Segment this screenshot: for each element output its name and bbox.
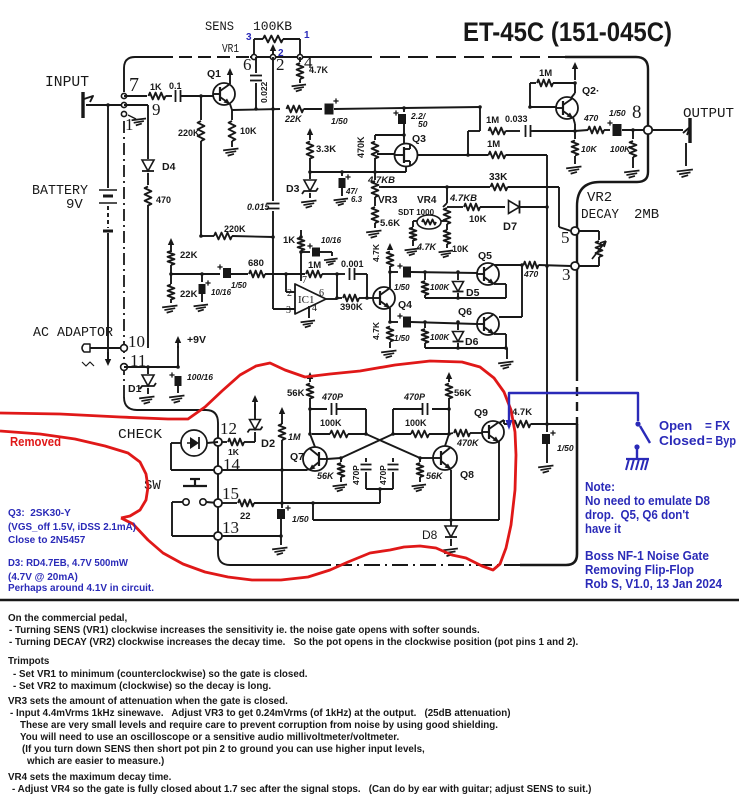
svg-text:100K: 100K <box>405 418 427 428</box>
flipflop ground rail <box>313 519 499 521</box>
sw row wire right <box>282 502 313 504</box>
svg-text:0.033: 0.033 <box>505 114 528 124</box>
svg-text:(4.7V @ 20mA): (4.7V @ 20mA) <box>8 572 78 583</box>
resistor 470 to pad3 <box>524 262 539 269</box>
transistor Q7 <box>303 447 327 471</box>
svg-text:You will need to use an oscill: You will need to use an oscilloscope or … <box>20 732 400 743</box>
bias row wire y=172 <box>310 171 406 173</box>
svg-text:470P: 470P <box>403 392 426 402</box>
IC1 pin2 wire <box>285 274 287 292</box>
capacitor 1/50 Q9 <box>546 424 548 432</box>
svg-text:6: 6 <box>243 55 252 74</box>
svg-text:7: 7 <box>302 275 307 286</box>
+9V arrow Q2 <box>574 66 576 80</box>
resistor 100K cross right <box>411 431 429 438</box>
svg-text:4.7KB: 4.7KB <box>367 175 395 186</box>
svg-text:100K: 100K <box>320 418 342 428</box>
svg-text:AC ADAPTOR: AC ADAPTOR <box>33 325 114 341</box>
transistor Q2 <box>556 97 578 119</box>
svg-text:(VGS_off 1.5V, iDSS 2.1mA): (VGS_off 1.5V, iDSS 2.1mA) <box>8 522 136 533</box>
pad14 wire to Q7 <box>222 469 307 471</box>
svg-text:100K: 100K <box>430 333 450 342</box>
resistor 1M Q2 bias <box>529 83 531 107</box>
svg-text:4.7KB: 4.7KB <box>449 193 477 204</box>
Q8 base node 56K <box>420 457 433 459</box>
svg-text:D8: D8 <box>422 528 438 542</box>
svg-text:13: 13 <box>222 518 239 537</box>
svg-text:VR4: VR4 <box>417 195 437 206</box>
trimpot VR4 4.7KB <box>445 185 449 189</box>
capacitor 1/50 output <box>613 124 622 136</box>
rail under Q5 <box>425 297 506 299</box>
capacitor 470P upper right <box>432 408 449 410</box>
svg-text:- Turning DECAY (VR2) clockwis: - Turning DECAY (VR2) clockwise increase… <box>9 637 579 648</box>
svg-text:33K: 33K <box>489 172 508 183</box>
svg-text:100K: 100K <box>610 144 631 154</box>
svg-text:4.7K: 4.7K <box>416 242 438 252</box>
coupling verticals <box>467 131 469 155</box>
svg-text:drop. Q5, Q6 don't: drop. Q5, Q6 don't <box>585 507 690 522</box>
svg-text:Removed: Removed <box>10 435 61 449</box>
transistor Q6 <box>477 313 499 335</box>
ground at pad 1 <box>128 115 136 119</box>
svg-text:= FX: = FX <box>705 418 730 433</box>
svg-text:4.7K: 4.7K <box>309 65 329 75</box>
capacitor 1/50 upper <box>390 271 398 273</box>
svg-text:Trimpots: Trimpots <box>8 656 50 667</box>
capacitor 47/6.3 <box>341 172 343 176</box>
resistor 56K Q8 collector <box>448 376 450 382</box>
Q6 emitter <box>494 333 506 335</box>
blue bypass wire <box>509 393 638 427</box>
Q5/Q6 collector tie <box>521 265 523 317</box>
svg-text:2: 2 <box>287 288 292 299</box>
svg-text:0.015: 0.015 <box>247 202 271 212</box>
line node3 taps down to Q9 row <box>546 207 548 266</box>
node pad 11 <box>121 364 128 371</box>
svg-text:390K: 390K <box>340 302 363 313</box>
svg-text:SENS: SENS <box>205 19 234 34</box>
svg-text:10K: 10K <box>452 244 469 254</box>
resistor 1M feedback <box>306 271 322 278</box>
svg-text:D3: D3 <box>286 183 300 195</box>
svg-text:56K: 56K <box>426 471 444 481</box>
transistor Q1 <box>213 83 235 105</box>
diode D6 <box>457 322 459 330</box>
PCB border outline <box>124 57 160 92</box>
capacitor 0.015 on pad2 line <box>267 203 280 205</box>
svg-text:VR1: VR1 <box>222 43 239 56</box>
node pad 3 <box>571 262 579 270</box>
svg-text:1M: 1M <box>486 115 499 126</box>
diode D7 <box>509 201 520 214</box>
VR3 wiper row to 33K <box>382 186 490 188</box>
svg-text:D7: D7 <box>503 221 517 233</box>
Q1 emitter wire down <box>230 104 232 110</box>
wire to Q2 base <box>404 107 480 108</box>
svg-text:CHECK: CHECK <box>118 427 163 443</box>
resistor 22K pullup <box>170 242 172 252</box>
svg-text:- Set VR1 to minimum (counterc: - Set VR1 to minimum (counterclockwise) … <box>13 669 308 680</box>
svg-text:1/50: 1/50 <box>394 334 410 343</box>
resistor 22 <box>222 502 237 504</box>
battery 9V symbol <box>106 103 110 107</box>
VR2 pot symbol <box>579 230 599 232</box>
svg-text:Q3: Q3 <box>412 133 426 145</box>
svg-text:6.3: 6.3 <box>351 195 363 204</box>
svg-text:1/50: 1/50 <box>394 283 410 292</box>
VR1 wiper arrow <box>272 48 274 57</box>
Q7 emitter <box>307 469 309 470</box>
input jack <box>81 92 84 118</box>
Q9 collector to 4.7K <box>499 420 504 423</box>
svg-text:D1: D1 <box>128 383 142 395</box>
svg-text:VR3 sets the amount of attenua: VR3 sets the amount of attenuation when … <box>8 696 288 707</box>
svg-text:100K: 100K <box>430 283 450 292</box>
svg-text:1/50: 1/50 <box>292 514 309 524</box>
resistor 4.7K below SDT <box>410 228 417 241</box>
svg-text:Closed: Closed <box>659 433 705 448</box>
svg-text:15: 15 <box>222 484 239 503</box>
svg-text:On the commercial pedal,: On the commercial pedal, <box>8 613 128 624</box>
Q4 emitter down <box>389 308 391 322</box>
svg-text:Open: Open <box>659 418 692 433</box>
wire pad11 right <box>124 366 178 368</box>
svg-text:2MB: 2MB <box>634 207 659 223</box>
Q2 collector <box>571 93 575 98</box>
diode D4 <box>124 104 148 106</box>
+9V arrow <box>177 346 179 367</box>
Q4 collector 4.7K to +9V <box>389 247 391 250</box>
transistor Q3 JFET <box>395 144 418 167</box>
svg-text:These are very small levels an: These are very small levels and require … <box>20 720 498 731</box>
resistor 100K lower <box>424 322 426 328</box>
blue switch <box>635 421 640 426</box>
svg-text:1K: 1K <box>283 235 295 246</box>
svg-text:OUTPUT: OUTPUT <box>683 106 734 122</box>
pad2 wire down to IC1 <box>272 57 274 201</box>
svg-text:4.7K: 4.7K <box>512 407 532 418</box>
node pad 4 <box>297 54 302 59</box>
capacitor 10/16 left <box>201 274 203 282</box>
resistor 470 output <box>588 127 604 134</box>
svg-text:1: 1 <box>304 30 310 41</box>
svg-text:1M: 1M <box>308 260 321 271</box>
svg-text:10/16: 10/16 <box>321 236 342 245</box>
ground rail Q5 Q6 <box>425 347 507 349</box>
wire node7 to 1K <box>124 95 147 97</box>
resistor 1M flipflop bias <box>281 411 283 424</box>
svg-text:1/50: 1/50 <box>231 281 247 290</box>
svg-text:1K: 1K <box>150 82 162 92</box>
svg-text:Q7: Q7 <box>290 451 304 463</box>
Q3 source down <box>405 166 407 172</box>
Q8 collector wire <box>445 434 449 446</box>
Q5 emitter to rail <box>494 283 506 285</box>
resistor 100K output <box>632 130 634 139</box>
svg-text:9V: 9V <box>66 197 83 213</box>
svg-text:470: 470 <box>523 269 538 279</box>
capacitor 0.022 from pad6 <box>255 57 257 73</box>
svg-text:470P: 470P <box>351 465 361 485</box>
resistor 390K <box>337 297 342 299</box>
transistor Q9 <box>482 421 504 443</box>
svg-text:4: 4 <box>312 303 317 314</box>
svg-text:Q9: Q9 <box>474 407 488 419</box>
svg-text:No need to emulate D8: No need to emulate D8 <box>585 493 710 508</box>
svg-text:4.7K: 4.7K <box>371 321 381 340</box>
resistor 1K input <box>149 93 166 100</box>
svg-text:Close to 2N5457: Close to 2N5457 <box>8 535 86 546</box>
svg-text:D2: D2 <box>261 438 275 450</box>
resistor 470K <box>375 134 404 136</box>
capacitor 470P upper left <box>310 408 327 410</box>
svg-text:680: 680 <box>248 258 264 269</box>
D2 zener and 1K from pad12 <box>214 438 222 446</box>
svg-text:5: 5 <box>561 228 570 247</box>
node pad 7 <box>121 93 126 98</box>
Q7 collector wire <box>310 434 315 447</box>
svg-text:DECAY: DECAY <box>581 207 620 223</box>
svg-text:1/50: 1/50 <box>331 116 348 126</box>
svg-text:1M: 1M <box>288 432 301 442</box>
resistor 10K Q1 emitter <box>231 110 233 120</box>
Q5 collector wire <box>494 264 522 266</box>
capacitor 0.033 <box>525 125 527 137</box>
output jack <box>652 129 683 131</box>
svg-text:10K: 10K <box>581 144 597 154</box>
svg-text:6: 6 <box>319 288 324 299</box>
resistor 680 <box>249 271 265 278</box>
svg-text:56K: 56K <box>454 388 472 399</box>
svg-text:Rob S, V1.0, 13 Jan 2024: Rob S, V1.0, 13 Jan 2024 <box>585 576 723 591</box>
svg-text:22K: 22K <box>180 250 198 261</box>
svg-text:3: 3 <box>286 305 291 316</box>
Q1 collector to +9V arrow <box>229 72 231 84</box>
capacitor 1/50 electrolytic series <box>325 104 334 115</box>
transistor Q8 <box>433 446 457 470</box>
op-amp IC1 <box>295 284 326 314</box>
svg-text:7: 7 <box>129 74 139 96</box>
node pad 15 <box>214 499 222 507</box>
svg-text:VR4 sets the maximum decay tim: VR4 sets the maximum decay time. <box>8 772 172 783</box>
resistor 4.7K Q4 emitter <box>387 327 394 342</box>
resistor 220K horizontal <box>201 235 214 237</box>
cross coupling diagonals <box>366 434 420 458</box>
diode D3 zener <box>309 172 311 179</box>
svg-text:Q2·: Q2· <box>582 85 600 97</box>
svg-text:22K: 22K <box>180 289 198 300</box>
svg-text:+9V: +9V <box>187 334 206 346</box>
svg-text:have it: have it <box>585 521 622 536</box>
capacitor 0.1 <box>175 90 177 102</box>
svg-text:220K: 220K <box>224 224 246 234</box>
svg-text:0.1: 0.1 <box>169 81 182 91</box>
Q8 emitter to D8 <box>449 468 451 470</box>
wire 0.1 to Q1 base <box>181 95 213 97</box>
IC1 pin7 supply <box>300 252 302 281</box>
capacitor 1/50 lower <box>390 321 398 323</box>
IC1 output <box>326 298 337 300</box>
svg-text:(If you turn down SENS then sh: (If you turn down SENS then short pot pi… <box>22 744 425 755</box>
svg-text:Note:: Note: <box>585 479 615 494</box>
svg-text:1M: 1M <box>539 68 552 79</box>
resistor 4.7K at pad4 <box>299 57 301 62</box>
resistor 3.3K <box>309 132 311 140</box>
svg-text:ET-45C (151-045C): ET-45C (151-045C) <box>463 17 672 47</box>
svg-text:0.022: 0.022 <box>259 81 269 103</box>
red removed outline <box>0 361 516 580</box>
resistor 33K <box>491 184 508 191</box>
svg-text:10/16: 10/16 <box>211 288 232 297</box>
svg-text:- Turning SENS (VR1) clockwise: - Turning SENS (VR1) clockwise increases… <box>9 625 480 636</box>
resistor 470K to Q9 <box>449 433 453 434</box>
svg-text:VR2: VR2 <box>587 190 612 206</box>
node pad 6 <box>251 54 256 59</box>
svg-text:220K: 220K <box>178 128 200 138</box>
svg-text:1/50: 1/50 <box>609 108 626 118</box>
svg-text:Removing Flip-Flop: Removing Flip-Flop <box>585 562 694 577</box>
svg-text:2: 2 <box>276 55 285 74</box>
resistor 10K below VR4 <box>444 230 451 244</box>
diode D8 <box>445 526 457 537</box>
resistor 100K upper <box>424 272 426 280</box>
separator line <box>0 599 739 602</box>
diode D1 zener <box>147 367 149 374</box>
svg-text:D3: RD4.7EB, 4.7V 500mW: D3: RD4.7EB, 4.7V 500mW <box>8 558 129 569</box>
output row wire <box>533 130 575 132</box>
svg-text:Q6: Q6 <box>458 306 472 318</box>
resistor 470 below D4 <box>147 173 149 185</box>
capacitor 100/16 <box>175 376 182 386</box>
svg-text:Perhaps around 4.1V in circuit: Perhaps around 4.1V in circuit. <box>8 583 154 594</box>
svg-text:1M: 1M <box>487 139 500 150</box>
node pad 10 <box>121 345 128 352</box>
svg-text:12: 12 <box>220 419 237 438</box>
svg-text:10: 10 <box>128 332 145 351</box>
resistor 56K Q7 collector <box>309 376 311 382</box>
svg-text:50: 50 <box>418 119 428 129</box>
node pad 2 <box>270 54 275 59</box>
svg-text:10K: 10K <box>469 214 487 225</box>
svg-text:14: 14 <box>223 455 241 474</box>
capacitor 0.001 <box>337 273 345 275</box>
svg-text:Q4: Q4 <box>398 299 412 311</box>
svg-text:Q3: 2SK30-Y: Q3: 2SK30-Y <box>8 508 71 519</box>
svg-text:470: 470 <box>583 113 598 123</box>
svg-text:- Adjust VR4 so the gate is fu: - Adjust VR4 so the gate is fully closed… <box>12 784 591 795</box>
svg-text:Q1: Q1 <box>207 68 221 80</box>
Q3 gate wire <box>377 153 394 155</box>
capacitor 2.2/50 <box>403 108 405 112</box>
svg-text:which are easier to measure.): which are easier to measure.) <box>26 756 164 767</box>
svg-text:22K: 22K <box>284 114 303 124</box>
svg-text:4.7K: 4.7K <box>371 243 381 262</box>
svg-text:470P: 470P <box>321 392 344 402</box>
resistor 220K Q1 base to bottom <box>200 96 202 120</box>
svg-text:Q8: Q8 <box>460 469 474 481</box>
svg-text:470: 470 <box>156 195 171 205</box>
wire to 1M feedback <box>286 273 305 275</box>
svg-text:D4: D4 <box>162 161 176 173</box>
node pad 5 <box>571 227 579 235</box>
resistor 10K Q2 emitter <box>574 131 576 139</box>
svg-text:5.6K: 5.6K <box>380 218 400 229</box>
resistor 1K IC1 supply <box>300 230 302 237</box>
svg-text:1/50: 1/50 <box>557 443 574 453</box>
svg-text:9: 9 <box>152 100 161 119</box>
transistor Q4 <box>373 287 395 309</box>
capacitor 10/16 IC1 <box>301 251 310 253</box>
svg-text:= Byp: = Byp <box>706 433 736 448</box>
battery minus arrow to pad 11 <box>107 352 109 362</box>
wire bias row y=274 <box>171 273 220 275</box>
diode D5 <box>457 272 459 280</box>
svg-text:470P: 470P <box>378 465 388 485</box>
svg-text:3.3K: 3.3K <box>316 144 336 155</box>
resistor 22K lower <box>170 274 172 284</box>
Q9 emitter <box>498 441 500 520</box>
capacitors 470P pair <box>365 458 367 462</box>
node pad 14 <box>214 466 222 474</box>
node pad 13 <box>214 532 222 540</box>
svg-text:56K: 56K <box>317 471 335 481</box>
capacitor 1/50 series <box>223 268 231 278</box>
Q3 drain row 1M <box>418 154 468 156</box>
svg-text:0.001: 0.001 <box>341 259 364 269</box>
node pad 9 <box>121 102 126 107</box>
svg-text:100/16: 100/16 <box>187 372 213 382</box>
node pad 1 <box>121 111 126 116</box>
IC1 pin3 wire <box>273 308 295 310</box>
svg-text:22: 22 <box>240 511 251 522</box>
resistor 22K signal <box>287 106 304 113</box>
resistor 4.7K Q9 <box>514 421 531 428</box>
capacitor 1/50 at sw <box>281 470 283 503</box>
VR4 wiper row 10K to D7 <box>447 206 463 208</box>
resistor 5.6K <box>374 197 376 206</box>
svg-text:Q5: Q5 <box>478 250 492 262</box>
Q7 base node 56K <box>327 458 341 459</box>
svg-text:100KB: 100KB <box>253 19 292 34</box>
Q2 emitter to output row <box>573 117 575 124</box>
IC1 pin4 ground <box>308 306 310 318</box>
svg-text:- Input 4.4mVrms 1kHz sinewave: - Input 4.4mVrms 1kHz sinewave. Adjust V… <box>10 708 510 719</box>
svg-text:INPUT: INPUT <box>45 75 89 91</box>
blue ground <box>626 458 649 460</box>
svg-text:3: 3 <box>562 265 571 284</box>
svg-text:470K: 470K <box>456 438 480 448</box>
svg-text:56K: 56K <box>287 388 305 399</box>
svg-text:- Set VR2 to maximum (clockwis: - Set VR2 to maximum (clockwise) so the … <box>13 681 271 692</box>
node pad 8 <box>644 126 652 134</box>
resistor 1M to 0.033 <box>468 130 480 132</box>
transistor Q5 <box>477 263 499 285</box>
LED left wire to pad14 <box>171 442 181 444</box>
svg-text:8: 8 <box>632 102 642 123</box>
svg-text:VR3: VR3 <box>378 195 398 206</box>
svg-text:3: 3 <box>246 32 252 43</box>
svg-text:470K: 470K <box>356 136 366 158</box>
ground Q1 10K <box>223 149 238 151</box>
resistor 100K cross left <box>330 431 348 438</box>
svg-text:D6: D6 <box>465 336 479 348</box>
svg-text:10K: 10K <box>240 126 257 136</box>
svg-text:Boss NF-1 Noise Gate: Boss NF-1 Noise Gate <box>585 548 709 563</box>
wire Q1 emitter row <box>232 109 280 110</box>
